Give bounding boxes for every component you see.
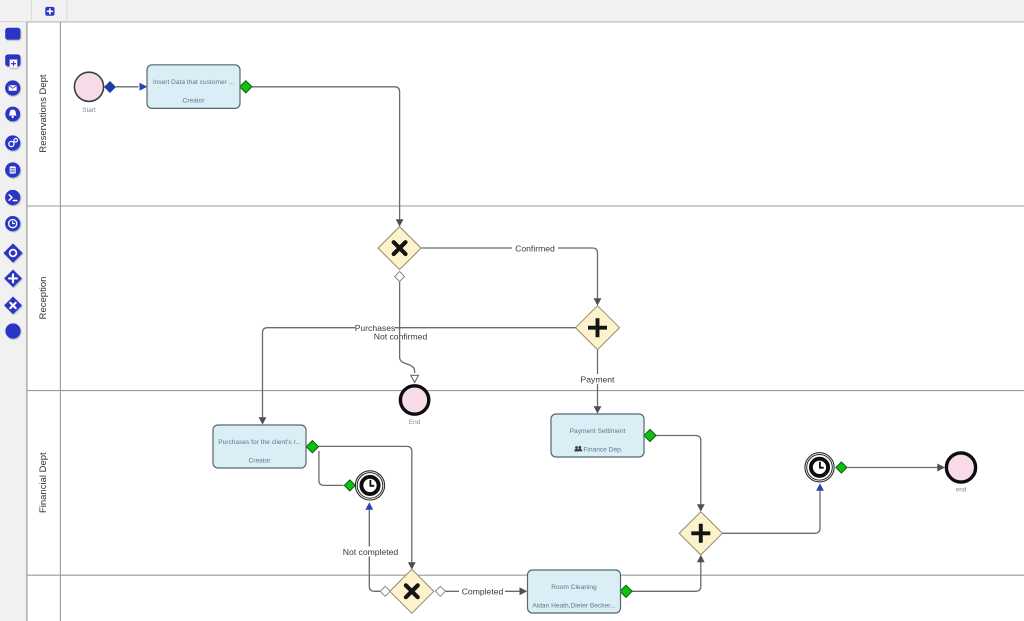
svg-text:Not completed: Not completed: [343, 547, 399, 557]
svg-text:Room Cleaning: Room Cleaning: [551, 584, 597, 591]
gateway P1: parallel: [576, 306, 620, 350]
svg-text:End: End: [409, 419, 421, 426]
wire: Not confirmed (X1 down to End event, open arrow): [400, 282, 415, 374]
svg-text:Creator: Creator: [249, 458, 272, 465]
gateway P2: parallel: [679, 512, 722, 555]
palette icon: subprocess: [5, 54, 20, 67]
palette icon: timer event: [5, 216, 20, 231]
lane label column border: [59, 22, 61, 621]
lane divider 2: [27, 390, 1024, 392]
svg-text:Reception: Reception: [38, 277, 49, 320]
add-lane plus button: [45, 7, 54, 16]
svg-text:Payment: Payment: [581, 374, 616, 384]
palette icon: task: [5, 28, 20, 40]
top toolbar bar: [0, 0, 1024, 22]
svg-text:Aidan Heath,Dieter Becker...: Aidan Heath,Dieter Becker...: [532, 603, 615, 610]
event: timer T1: [355, 471, 384, 500]
svg-text:Confirmed: Confirmed: [515, 244, 555, 254]
palette icon: message event: [5, 80, 20, 95]
svg-text:Creator: Creator: [183, 97, 206, 104]
svg-text:Insert Data that customer ...: Insert Data that customer ...: [153, 79, 235, 86]
svg-text:Not confirmed: Not confirmed: [374, 331, 428, 341]
svg-text:Reservations Dept: Reservations Dept: [38, 74, 49, 153]
svg-text:Purchases for the client's r..: Purchases for the client's r...: [218, 439, 301, 446]
lane divider 1: [27, 205, 1024, 207]
palette icon: end event: [5, 323, 20, 338]
wire: Completed (X2 to Room Cleaning): [446, 590, 520, 592]
palette icon: parallel gateway: [4, 270, 22, 288]
palette icon: exclusive gateway: [4, 297, 22, 315]
wire: Purchases task to timer T1: [319, 451, 344, 485]
wire: Payment (P1 down to Payment Settlment): [597, 350, 599, 407]
task: Payment Settlment: [551, 414, 644, 457]
connection handle below X1: [395, 272, 405, 282]
port: green diamond at timer T1: [344, 480, 355, 491]
palette icon: inclusive gateway: [3, 243, 22, 262]
wire: Insert Data task to exclusive gateway X1: [252, 87, 400, 220]
label: Not confirmed: [371, 331, 430, 341]
wire: Start to Insert Data task: [116, 86, 139, 88]
wire: Payment Settlment to parallel gateway P2: [656, 436, 701, 505]
connection handle left of X2: [380, 586, 390, 596]
svg-text:Completed: Completed: [462, 586, 504, 596]
svg-text:Finance Dep.: Finance Dep.: [583, 447, 622, 454]
port: green diamond at timer T2: [836, 462, 847, 473]
port: green diamond at Payment Settlment: [644, 429, 656, 441]
event: timer T2: [805, 453, 834, 482]
wire: Confirmed (X1 to parallel gateway P1): [422, 248, 598, 299]
wire: timer T2 to end event: [848, 467, 938, 469]
pool left border: [26, 22, 28, 621]
gateway X1: exclusive: [378, 227, 421, 270]
svg-text:end: end: [956, 487, 967, 494]
event: end (right): [946, 453, 975, 494]
task: Insert Data that customer: [147, 65, 240, 109]
wire: P2 to timer T2: [723, 491, 821, 534]
gateway X2: exclusive: [390, 569, 434, 613]
palette icon: service task: [5, 135, 20, 150]
wire: Purchases task to exclusive gateway X2: [319, 446, 412, 562]
palette icon: business-rule task: [5, 162, 20, 177]
svg-text:Payment Settlment: Payment Settlment: [570, 428, 626, 435]
task: Room Cleaning: [528, 570, 621, 613]
palette icon: signal/bell event: [5, 107, 20, 122]
port: green diamond at Room Cleaning: [620, 585, 632, 597]
port: green diamond at Insert Data task: [240, 81, 252, 93]
wire: Purchases (P1 left then down to Purchases task): [263, 328, 576, 418]
connection handle right of X2: [435, 586, 445, 596]
port: green diamond at Purchases task: [306, 441, 318, 453]
svg-text:Financial Dept: Financial Dept: [38, 452, 49, 513]
palette icon: script task: [5, 190, 20, 205]
port: blue diamond at Start: [104, 81, 116, 93]
left palette background: [0, 22, 26, 621]
lane divider 3: [27, 574, 1024, 576]
event: Start: [74, 72, 103, 114]
event: End (middle): [400, 386, 428, 426]
task: Purchases for the client's r...: [213, 425, 306, 468]
svg-text:Start: Start: [82, 107, 96, 114]
wire: Room Cleaning to parallel gateway P2: [632, 562, 701, 591]
wire: Not completed (X2 to timer T1): [369, 510, 380, 592]
